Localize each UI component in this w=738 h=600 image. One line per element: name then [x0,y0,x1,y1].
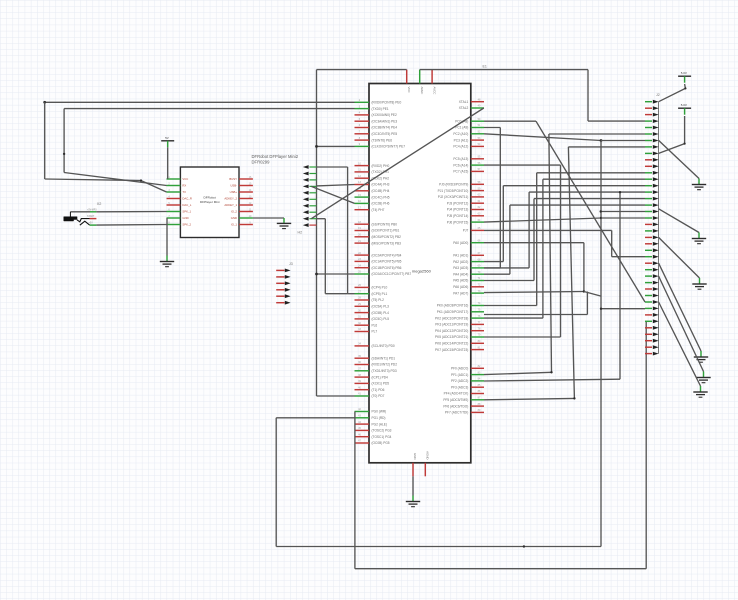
U1 pin PH7 left [355,209,370,211]
connector J3 pin 2 [276,276,284,278]
wire J2 band row 2 [529,191,645,193]
svg-text:(SCK/PCINT1) PB1: (SCK/PCINT1) PB1 [372,229,400,233]
svg-text:(OC4B) PH4: (OC4B) PH4 [372,189,390,193]
U1 pin PJ4 right [471,209,484,211]
svg-text:PC6 (A14): PC6 (A14) [453,163,468,167]
U2 pin SPK_1 left [167,211,181,213]
connector J3 pin 4 [276,289,284,291]
connector J3 pin 6 [276,302,284,304]
U1 pin PF2 right [471,380,484,382]
svg-text:USB-: USB- [230,184,237,188]
U1 pin AREF top [419,70,421,84]
U1 pin PL4 left [355,312,370,314]
connector J2 pin 28 [645,275,652,277]
wire TXD0 to U2 RX [64,173,166,186]
connector J2 pin 3 [645,114,652,116]
connector J2 pin 34 [645,314,652,316]
svg-text:(ICP5) PL1: (ICP5) PL1 [372,292,388,296]
wire J2 row12 riser to PK2 [543,178,645,180]
connector H2 pin 10 [303,223,309,227]
svg-text:DFR0299: DFR0299 [252,159,271,164]
wire J2 band row 4 [510,204,645,206]
connector J2 pin 8 [645,146,652,148]
wire main vertical x316 [316,70,318,396]
svg-text:PJ4 (PCINT13): PJ4 (PCINT13) [447,208,469,212]
svg-text:(MOSI/PCINT2) PB2: (MOSI/PCINT2) PB2 [372,235,402,239]
svg-text:(MISO/PCINT3) PB3: (MISO/PCINT3) PB3 [372,241,402,245]
svg-text:PK6 (ADC14/PCINT22): PK6 (ADC14/PCINT22) [435,342,468,346]
U1 pin PH2 left [355,177,370,179]
wire riser x601 [600,141,602,547]
wire H2 pin9 long diagonal to XTAL2 [311,108,484,219]
svg-text:ADKEY_2: ADKEY_2 [224,197,237,201]
connector J2 pin 23 [645,243,652,245]
connector J2 pin 39 [645,346,652,348]
U1 pin PE3 left [355,120,370,122]
svg-text:(T1) PD6: (T1) PD6 [372,388,385,392]
jack X2 lever contact [77,219,90,222]
U1 pin PB4 left [355,254,370,256]
svg-text:(T5) PL2: (T5) PL2 [372,298,385,302]
svg-text:PJ0 (RXD3/PCINT9): PJ0 (RXD3/PCINT9) [439,183,468,187]
jack X2 spring contact [80,221,90,225]
svg-text:PF6 (ADC6/TDO): PF6 (ADC6/TDO) [443,404,468,408]
wire link riser to PF2 [601,308,645,310]
U1 pin PL2 left [355,299,370,301]
connector J2 pin 38 [645,340,652,342]
U1 pin PJ5 right [471,215,484,217]
connector H2 pin 6 [303,197,309,201]
connector J2 pin 25 [645,256,652,258]
connector J2 pin 10 [645,159,652,161]
svg-text:(OC4C) PH5: (OC4C) PH5 [372,195,390,199]
svg-text:J3: J3 [289,262,293,266]
U1 pin PG3 left [355,429,370,431]
U1 pin AGND bottom [424,463,426,477]
wire X2 tip to U2 SPK_1 [70,211,90,213]
U1 pin PJ1 right [471,190,484,192]
svg-text:H2: H2 [298,231,303,235]
svg-text:DFRobot: DFRobot [204,196,217,200]
U1 pin PH5 left [355,196,370,198]
connector J2 pin 27 [645,269,652,271]
U1 pin PC3 right [471,139,484,141]
svg-text:PC7 (A15): PC7 (A15) [453,170,468,174]
svg-text:(T0) PD7: (T0) PD7 [372,394,385,398]
U2 pin TX left [167,191,181,193]
svg-text:AVCC: AVCC [432,87,436,95]
svg-text:AGND: AGND [426,451,430,459]
connector J2 pin 30 [645,288,652,290]
wire loop PA0 PG1 bottom [484,242,584,244]
wire PK1 short riser [484,314,587,316]
wire X2 spring to U2 SPK_2 [90,224,97,226]
svg-text:PF4 (ADC4/TCK): PF4 (ADC4/TCK) [444,392,469,396]
U1 pin PJ7 right [471,229,484,231]
svg-text:(T3/INT6) PE6: (T3/INT6) PE6 [372,138,393,142]
U1 pin (WR) left [355,411,370,413]
U1 pin PK1 right [471,311,484,313]
U1 pin (RD) left [355,417,370,419]
connector H2 pin 9 [303,217,309,221]
module U2 DFPlayer Mini body [180,167,239,238]
U1 pin PC1 right [471,127,484,129]
connector J2 pin 16 [645,198,652,200]
U1 pin PD4 left [355,376,370,378]
svg-text:PJ5 (PCINT14): PJ5 (PCINT14) [447,214,469,218]
U1 pin PE0 left [355,101,370,103]
U1 pin PD6 left [355,389,370,391]
U1 pin PE5 left [355,133,370,135]
svg-text:(TOSC2) PG3: (TOSC2) PG3 [372,429,392,433]
svg-text:PC4 (A12): PC4 (A12) [453,145,468,149]
connector J2 pin 31 [645,295,652,297]
svg-text:BUSY: BUSY [229,177,237,181]
connector J2 pin 17 [645,204,652,206]
U2 pin GND left [167,217,181,219]
svg-text:PF5 (ADC5/TMS): PF5 (ADC5/TMS) [443,398,468,402]
connector J2 pin 37 [645,333,652,335]
U1 pin PD2 left [355,364,370,366]
wire top horizontal to U1 VCC [317,69,407,71]
wire PA7 to junction [484,292,584,293]
svg-text:PG0 (WR): PG0 (WR) [372,410,387,414]
svg-text:(SCL/INT0) PD0: (SCL/INT0) PD0 [372,344,395,348]
connector H2 pin 8 [303,210,309,214]
svg-text:PG1 (RD): PG1 (RD) [372,416,386,420]
U2 pin SPK_2 left [167,224,181,226]
U1 pin PJ0 right [471,183,484,185]
connector J2 pin 6 [645,133,652,135]
svg-text:PC2 (A10): PC2 (A10) [453,132,468,136]
U1 pin XTAL2 right [471,107,484,109]
svg-text:(ICP4) PL0: (ICP4) PL0 [372,286,388,290]
svg-text:PC3 (A11): PC3 (A11) [454,138,469,142]
svg-text:PJ3 (PCINT12): PJ3 (PCINT12) [447,201,469,205]
ground right 1 [692,184,706,186]
wire junction to J2 pin7 [601,140,645,142]
connector J2 pin 5 [645,127,652,129]
svg-text:(TOSC1) PG4: (TOSC1) PG4 [372,435,392,439]
svg-text:(T4) PH7: (T4) PH7 [372,208,385,212]
svg-text:PJ6 (PCINT15): PJ6 (PCINT15) [447,220,469,224]
connector H2 pin 5 [303,191,309,195]
U2 pin ADKEY_2 right [239,198,253,200]
U1 pin PD1 left [355,357,370,359]
svg-text:PK0 (ADC8/PCINT16): PK0 (ADC8/PCINT16) [437,304,469,308]
U1 pin PH6 left [355,202,370,204]
connector J2 pin 11 [645,165,652,167]
U1 pin PF5 right [471,399,484,401]
svg-text:XTAL2: XTAL2 [459,106,469,110]
connector H2 pin 2 [303,172,309,176]
connector H2 pin 7 [303,204,309,208]
wire vertical RXD0 [44,102,46,179]
connector J3 pin 5 [276,295,284,297]
ground below U2 [160,261,174,263]
connector J2 pin 36 [645,327,652,329]
svg-text:DFPlayer Mini: DFPlayer Mini [200,200,220,204]
svg-text:SPK_1: SPK_1 [182,210,191,214]
svg-text:GND: GND [182,216,188,220]
U1 pin PD5 left [355,382,370,384]
svg-text:DAC_R: DAC_R [182,197,191,201]
U1 pin AVCC top [431,70,433,84]
U1 pin PF3 right [471,386,484,388]
wire long diagonal PC0 to J2 [536,121,645,302]
wire J2 band row 3 [534,198,645,200]
ground right of U2 [277,222,291,224]
connector J2 pin 26 [645,262,652,264]
wire U2 GND to ground [166,218,168,256]
wire J2 row11 riser to PK0 [537,172,645,174]
svg-text:(OC5C) PL5: (OC5C) PL5 [372,317,390,321]
wire J2 to ground 1 [659,140,699,178]
svg-text:XTAL1: XTAL1 [459,100,469,104]
svg-text:PC1 (A9): PC1 (A9) [455,126,468,130]
svg-text:PA5 (AD5): PA5 (AD5) [453,279,468,283]
U1 pin PE7 left [355,145,370,147]
U1 pin PB0 left [355,223,370,225]
U1 pin PK5 right [471,336,484,338]
wire J2 row17 tee [601,211,645,213]
svg-text:PF0 (ADC0): PF0 (ADC0) [451,367,468,371]
connector J2 pin 14 [645,185,652,187]
svg-text:(OC5A) PL3: (OC5A) PL3 [372,305,390,309]
connector J2 pin 4 [645,120,652,122]
wire J2 to ground 6 [659,302,701,386]
connector J2 pin 1 [645,101,652,103]
U1 pin PB3 left [355,242,370,244]
svg-text:E1: E1 [483,65,487,69]
svg-text:PG2 (ALE): PG2 (ALE) [372,422,387,426]
U1 pin GND bottom [412,463,414,477]
U1 pin PJ2 right [471,196,484,198]
svg-text:IO_1: IO_1 [231,223,238,227]
svg-text:(RXD2) PH0: (RXD2) PH0 [372,164,390,168]
svg-text:(OC3B/INT4) PE4: (OC3B/INT4) PE4 [372,126,398,130]
connector J2 pin 13 [645,178,652,180]
wire U1 GND to ground [412,476,414,495]
U1 pin PA1 right [471,254,484,256]
U1 pin PL3 left [355,305,370,307]
IC U1 mega2560 body [369,84,471,463]
wire PJ7 to J2 [484,229,612,231]
svg-text:AREF: AREF [420,87,424,95]
U1 pin PD3 left [355,370,370,372]
U1 pin PK7 right [471,349,484,351]
svg-text:DAC_L: DAC_L [182,203,191,207]
wire PC1 to riser x500 [484,127,500,129]
svg-text:(OC0A/OC1C/PCINT7) PB7: (OC0A/OC1C/PCINT7) PB7 [372,272,412,276]
svg-text:PA0 (AD0): PA0 (AD0) [453,241,468,245]
svg-text:DFRobot DFPlayer Mini2: DFRobot DFPlayer Mini2 [252,154,299,159]
jack X2 body [64,217,77,221]
connector J2 pin 15 [645,191,652,193]
svg-text:PL7: PL7 [372,330,378,334]
U1 pin PB6 left [355,267,370,269]
svg-text:J2: J2 [656,93,660,97]
wire J2 to ground 3 [659,237,700,278]
U1 pin PJ3 right [471,202,484,204]
ground right 5 [696,377,710,379]
wire loop PG0 J2 bottom [354,412,356,569]
svg-text:(SS/PCINT0) PB0: (SS/PCINT0) PB0 [372,222,398,226]
svg-text:(OC1B/PCINT6) PB6: (OC1B/PCINT6) PB6 [372,266,402,270]
U1 pin (ALE) left [355,423,370,425]
wire PB7 branch [317,273,355,275]
wire J2 row5 riser to PF1 [549,133,645,135]
wire top horizontal AREF to right [420,69,588,71]
U1 pin PK4 right [471,330,484,332]
U1 pin PA5 right [471,280,484,282]
svg-text:PF3 (ADC3): PF3 (ADC3) [451,385,468,389]
U1 pin PH4 left [355,190,370,192]
svg-text:(OC2A/PCINT4) PB4: (OC2A/PCINT4) PB4 [372,253,402,257]
U1 pin PC6 right [471,164,484,166]
U2 pin GND right [239,217,253,219]
svg-text:(OC3A/AIN1) PE3: (OC3A/AIN1) PE3 [372,119,398,123]
svg-text:(XCK1) PD5: (XCK1) PD5 [372,382,390,386]
U1 pin PD0 left [355,345,370,347]
ground right 3 [692,283,706,285]
svg-text:5V: 5V [165,136,169,140]
svg-text:GND: GND [231,216,237,220]
svg-text:PA2 (AD2): PA2 (AD2) [453,260,468,264]
U1 pin PC7 right [471,170,484,172]
svg-text:PA4 (AD4): PA4 (AD4) [453,272,468,276]
wire H2 pin4 diagonal to PH6 [311,186,354,203]
U1 pin PC0 right [471,120,484,122]
svg-text:PF1 (ADC1): PF1 (ADC1) [451,373,468,377]
wire PE1 TXD0 net [64,108,354,110]
svg-text:PK7 (ADC15/PCINT23): PK7 (ADC15/PCINT23) [435,348,468,352]
U2 pin ADKEY_1 right [239,204,253,206]
svg-text:(XCK0/AIN0) PE2: (XCK0/AIN0) PE2 [372,113,398,117]
U1 pin PD7 left [355,395,370,397]
connector J2 pin 35 [645,320,652,322]
svg-text:(OC5B) PL4: (OC5B) PL4 [372,311,390,315]
svg-text:PJ2 (XCK3/PCINT11): PJ2 (XCK3/PCINT11) [438,195,469,199]
wire H2 pin1 to riser [316,166,347,168]
svg-text:GND: GND [413,453,417,459]
U1 pin PA2 right [471,261,484,263]
U1 pin PL5 left [355,318,370,320]
wire P1 to J2 pin1 [659,84,686,102]
connector J2 pin 2 [645,107,652,109]
wire vertical TXD0 [63,109,65,173]
U2 pin DAC_R left [167,198,181,200]
U1 pin PE1 left [355,108,370,110]
U2 pin VCC left [167,178,181,180]
connector J2 pin 29 [645,282,652,284]
U1 pin PB5 left [355,260,370,262]
wire PE0 RXD0 net [45,101,355,103]
svg-text:5.0V: 5.0V [681,71,687,75]
wire PE7 branch [317,145,355,147]
svg-text:X2: X2 [97,202,102,206]
svg-text:PK2 (ADC10/PCINT18): PK2 (ADC10/PCINT18) [435,316,468,320]
U1 pin XTAL1 right [471,101,484,103]
svg-text:(RXD1/INT2) PD2: (RXD1/INT2) PD2 [372,363,398,367]
X2 middle pin stub [90,218,97,220]
wire PD7 branch [317,395,355,397]
svg-text:VCC: VCC [407,87,411,93]
U1 pin PF1 right [471,374,484,376]
U1 pin PC4 right [471,145,484,147]
U1 pin PB2 left [355,236,370,238]
U1 pin PK6 right [471,342,484,344]
connector J3 pin 1 [276,269,284,271]
svg-text:+5V: +5V [89,222,94,224]
svg-text:PF7 (ADC7/TDI): PF7 (ADC7/TDI) [445,411,468,415]
wire PC0 to elbow [484,120,536,122]
wire riser x325 [316,218,325,220]
connector J2 pin 7 [645,140,652,142]
connector J3 pin 3 [276,282,284,284]
U1 pin PG4 left [355,436,370,438]
svg-text:PJ1 (TXD3/PCINT10): PJ1 (TXD3/PCINT10) [438,189,469,193]
U1 pin PH0 left [355,165,370,167]
U1 pin PL0 left [355,286,370,288]
J2 tip bus vertical [658,102,660,354]
svg-text:(CLKO/ICP3/INT7) PE7: (CLKO/ICP3/INT7) PE7 [372,145,406,149]
svg-text:(RXD0/PCINT8) PE0: (RXD0/PCINT8) PE0 [372,101,402,105]
ground right 2 [692,238,706,240]
U2 pin IO_2 right [239,211,253,213]
wire J2 to ground 5 [659,276,704,371]
svg-text:PK5 (ADC13/PCINT21): PK5 (ADC13/PCINT21) [435,335,468,339]
wire H2 pin4 to PH3 [316,185,354,186]
svg-text:(OC4A) PH3: (OC4A) PH3 [372,183,390,187]
U1 pin PH3 left [355,184,370,186]
svg-text:RX: RX [182,184,186,188]
svg-text:START: START [87,215,95,218]
wire L1 bottom run [276,546,601,548]
connector J2 pin 12 [645,172,652,174]
U1 pin PF6 right [471,405,484,407]
U1 pin PL1 left [355,293,370,295]
U1 pin PB1 left [355,230,370,232]
svg-text:PK3 (ADC11/PCINT19): PK3 (ADC11/PCINT19) [435,323,468,327]
connector J2 pin 22 [645,236,652,238]
svg-text:(TXD1/INT3) PD3: (TXD1/INT3) PD3 [372,369,397,373]
svg-text:(TXD0) PE1: (TXD0) PE1 [372,107,389,111]
svg-text:PA3 (AD3): PA3 (AD3) [453,266,468,270]
U2 pin USB+ right [239,191,253,193]
svg-text:IO_2: IO_2 [231,210,238,214]
connector H2 pin 3 [303,178,309,182]
connector J2 pin 18 [645,211,652,213]
U1 pin PK3 right [471,323,484,325]
ground below U1 [406,501,420,503]
U1 pin PH1 left [355,171,370,173]
wire P3 to U2 VCC [167,147,169,179]
U2 pin RX left [167,185,181,187]
wire riser x347 to PL1 [347,167,349,294]
wire jog to riser [584,292,601,297]
connector J2 pin 19 [645,217,652,219]
svg-text:PF2 (ADC2): PF2 (ADC2) [451,379,468,383]
svg-text:SPK_2: SPK_2 [182,223,191,227]
U2 pin IO_1 right [239,224,253,226]
svg-text:PK1 (ADC9/PCINT17): PK1 (ADC9/PCINT17) [437,310,469,314]
jack X2 sleeve lead [69,212,71,217]
wire right drop to J2 [587,70,589,122]
U1 pin PB7 left [355,273,370,275]
svg-text:(OC2B) PH6: (OC2B) PH6 [372,202,390,206]
svg-text:PA7 (AD7): PA7 (AD7) [453,291,468,295]
